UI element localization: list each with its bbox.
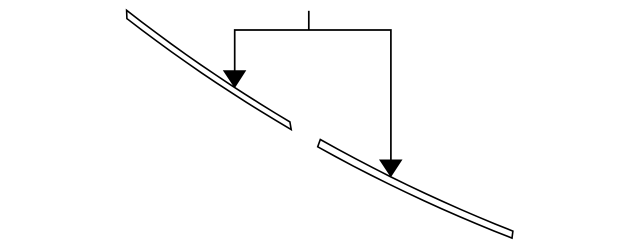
right arrowhead	[379, 160, 403, 178]
left arrowhead	[223, 70, 247, 88]
top stub	[308, 11, 310, 30]
left curved strip segment	[127, 10, 292, 129]
connector bracket (left drop, horizontal, right drop)	[235, 30, 391, 165]
right curved strip segment	[318, 140, 513, 239]
